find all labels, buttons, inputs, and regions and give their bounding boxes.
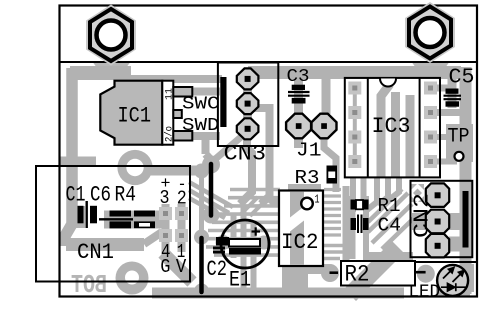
wire pad band to bar A bbox=[136, 166, 202, 176]
wire C5 vertical bbox=[448, 78, 457, 108]
R2 left dash bbox=[330, 271, 339, 274]
TP test point bbox=[455, 152, 464, 161]
wire R3 to IC2 bbox=[288, 184, 321, 191]
svg-text:CN2: CN2 bbox=[412, 193, 435, 238]
CN2 diamond pad bbox=[408, 184, 427, 203]
via bar A bottom pad bbox=[203, 207, 220, 224]
jumper bar B bbox=[199, 238, 204, 292]
IC1 pin middle stub bbox=[173, 110, 182, 118]
svg-text:IC2: IC2 bbox=[281, 229, 319, 255]
wire bus line 4 bbox=[216, 212, 280, 216]
CN1 pin pad 1 bbox=[175, 229, 188, 242]
wire bus line 3 bbox=[224, 204, 280, 208]
IC1 body bbox=[100, 81, 173, 145]
LED circle bbox=[437, 265, 468, 296]
wire E1 vertical 2 bbox=[241, 206, 247, 288]
wire R1 C4 vertical 1 bbox=[350, 196, 356, 259]
CN1 pin pad 4 bbox=[159, 229, 172, 242]
wire under IC2 blob bbox=[282, 266, 308, 290]
svg-text:CN1: CN1 bbox=[77, 239, 114, 265]
IC3 pad row1 left bbox=[348, 82, 361, 95]
svg-text:IC3: IC3 bbox=[372, 113, 411, 139]
wire vertical right of IC2 bbox=[343, 186, 350, 260]
IC3 pad row4 left bbox=[348, 155, 361, 168]
IC1 tab pad bbox=[117, 150, 152, 185]
IC2 inner trace top bbox=[290, 192, 304, 218]
CN1 pin pad 3 bbox=[159, 207, 172, 220]
wire diag stripe 3 bbox=[189, 198, 225, 218]
resistor R1 bbox=[351, 200, 369, 210]
svg-text:SWD: SWD bbox=[182, 115, 220, 136]
wire vertical to bar B bbox=[199, 171, 204, 240]
nut right bbox=[405, 2, 455, 63]
via bar B bottom pad bbox=[194, 284, 209, 299]
wire R1 C4 vertical 2 bbox=[363, 196, 369, 259]
CN3 pad 1 bbox=[237, 68, 259, 89]
wire fan diagonal 2 bbox=[250, 200, 266, 216]
LED box top line bbox=[415, 261, 476, 263]
wire left vertical trace bbox=[65, 68, 72, 246]
capacitor C4 bbox=[351, 215, 369, 234]
IC3 pad row1 right bbox=[424, 82, 437, 95]
IC3 pad row2 left bbox=[348, 106, 361, 119]
svg-text:3: 3 bbox=[160, 187, 170, 209]
wire C3 vertical bbox=[294, 78, 303, 148]
CN3 black bar bbox=[220, 77, 226, 127]
wire bus line 7 bbox=[206, 237, 280, 241]
IC2 pin1 circle bbox=[301, 198, 313, 210]
svg-text:SWC: SWC bbox=[182, 94, 220, 115]
IC3 pad row3 right bbox=[424, 131, 437, 144]
nut left bbox=[86, 5, 136, 66]
wire under LED bbox=[436, 287, 470, 296]
svg-text:CN3: CN3 bbox=[224, 141, 267, 167]
wire below IC3 5 bbox=[389, 177, 399, 200]
wire bus line 6 bbox=[208, 229, 280, 233]
wire IC3 pad1 to C5 bbox=[429, 85, 452, 92]
wire IC2 inner bottom bbox=[290, 232, 304, 290]
wire IC3 left col bbox=[353, 88, 357, 162]
IC3 pad row4 right bbox=[424, 155, 437, 168]
wire CN2 diagonal 2 bbox=[368, 193, 408, 232]
wire CN1 SE diagonal bbox=[163, 253, 192, 282]
R2 box bbox=[341, 261, 415, 286]
svg-text:C3: C3 bbox=[287, 66, 310, 87]
wire CN2 entry blob bbox=[410, 184, 424, 202]
wire big diagonal under R2 bbox=[350, 247, 398, 295]
wire below IC3 3 bbox=[367, 177, 377, 210]
mounting hole pad shadow right bbox=[412, 63, 449, 77]
capacitor C5 bbox=[444, 89, 462, 107]
wire right vertical band bbox=[460, 67, 472, 294]
IC1 pin SWC bbox=[173, 87, 192, 97]
CN1 corner pad bbox=[116, 262, 149, 295]
E1 plus bbox=[252, 227, 261, 235]
wire CN1 diag bbox=[144, 232, 162, 244]
svg-text:TP: TP bbox=[448, 126, 470, 149]
capacitor C1 bbox=[78, 201, 98, 228]
svg-text:C5: C5 bbox=[449, 67, 475, 90]
wire TP blob bbox=[446, 124, 473, 162]
resistor R3 bbox=[327, 166, 338, 184]
wire comb right of IC2 bbox=[324, 190, 341, 236]
CN1 box bbox=[36, 166, 190, 282]
wire J1 to R3 bbox=[324, 128, 336, 192]
CN3 pad 2 bbox=[237, 93, 259, 114]
CN2 pad 3 bbox=[426, 234, 449, 258]
svg-text:C1: C1 bbox=[66, 182, 86, 208]
wire CN2 diagonal 4 bbox=[382, 218, 414, 249]
svg-text:R2: R2 bbox=[345, 262, 370, 289]
resistor R4 bbox=[134, 211, 155, 229]
wire bus line 1 bbox=[230, 188, 280, 192]
svg-text:E1: E1 bbox=[229, 268, 251, 293]
J1 pad right bbox=[312, 114, 337, 139]
board outline bbox=[60, 6, 478, 297]
wire above R2 right bbox=[363, 252, 413, 261]
wire top band left thin bbox=[125, 75, 222, 83]
wire below IC3 1 bbox=[350, 177, 356, 212]
mounting hole pad shadow left bbox=[93, 63, 130, 77]
wire IC3 pad3 stub bbox=[429, 134, 452, 140]
R2 right dash bbox=[416, 271, 426, 274]
board top strip line bbox=[60, 61, 478, 63]
wire diag stripe 1 bbox=[189, 182, 233, 207]
wire IC3 inner 1 bbox=[381, 84, 390, 177]
svg-text:2: 2 bbox=[177, 188, 187, 210]
wire CN3 pad3 down bbox=[240, 130, 252, 204]
wire J1 right pad up bbox=[322, 79, 331, 114]
svg-text:LED: LED bbox=[409, 282, 441, 303]
wire CN2 row3 stub bbox=[449, 237, 462, 252]
IC1 pin SWD bbox=[173, 131, 192, 141]
wire CN3 pad2 stub bbox=[247, 108, 270, 204]
wire CN2 diagonal 3 bbox=[372, 204, 412, 243]
wire CN1 pad col 2 bbox=[178, 204, 186, 252]
svg-text:C4: C4 bbox=[378, 215, 402, 237]
wire CN2 row2 band bbox=[412, 213, 462, 230]
wire bus line 8 bbox=[206, 245, 280, 249]
LED diode symbol bbox=[441, 283, 466, 291]
CN2 black bar bbox=[463, 191, 469, 248]
via bar B top pad bbox=[194, 230, 209, 245]
wire CN1 band 2 bbox=[66, 238, 144, 251]
CN2 pad 1 bbox=[426, 183, 449, 207]
electrolytic E1 circle bbox=[221, 220, 269, 268]
svg-text:G: G bbox=[160, 256, 170, 278]
svg-text:R4: R4 bbox=[115, 182, 137, 208]
capacitor C6 bbox=[99, 211, 133, 229]
wire SWC pin trace bbox=[192, 88, 220, 96]
wire CN1 C1 pad bbox=[71, 206, 85, 228]
wire IC3 inner 2 bbox=[391, 92, 400, 177]
E1 body slot bbox=[229, 239, 260, 247]
IC3 box bbox=[345, 78, 440, 177]
CN3 box bbox=[218, 63, 278, 147]
svg-text:C2: C2 bbox=[207, 257, 228, 282]
wire below IC3 4 bbox=[378, 177, 388, 205]
wire CN2 diagonal 1 bbox=[368, 189, 402, 222]
svg-text:IC1: IC1 bbox=[118, 103, 152, 129]
wire bar to CN3 diag bbox=[213, 137, 241, 161]
wire IC1 pad to jumper bbox=[60, 157, 96, 166]
wire top band left bbox=[70, 66, 131, 80]
capacitor C3 bbox=[288, 85, 310, 104]
wire LED right column bbox=[466, 264, 474, 292]
capacitor C2 bbox=[213, 237, 229, 254]
via left of R2 bbox=[321, 264, 339, 282]
wire bus line 5 bbox=[212, 221, 280, 225]
svg-text:J1: J1 bbox=[296, 140, 322, 162]
wire below IC3 2 bbox=[361, 177, 367, 207]
wire IC3 inner 3 bbox=[406, 95, 415, 177]
wire CN1 band 1 bbox=[104, 211, 162, 229]
wire band into IC2 bbox=[269, 198, 280, 201]
wire E1 vertical 3 bbox=[251, 222, 257, 288]
svg-text:1: 1 bbox=[315, 193, 320, 207]
wire CN3 pads connector bbox=[243, 78, 252, 130]
CN2 box bbox=[411, 181, 473, 257]
wire diag stripe 2 bbox=[189, 190, 229, 213]
CN1 pin pad 2 bbox=[175, 207, 188, 220]
IC3 pad row2 right bbox=[424, 106, 437, 119]
wire E1 vertical 1 bbox=[231, 214, 237, 258]
IC2 inner trace bottom bbox=[290, 221, 304, 265]
wire top band right bbox=[248, 66, 461, 79]
via right of R2 bbox=[417, 265, 435, 283]
svg-text:V: V bbox=[176, 256, 187, 278]
wire IC3 pad2 to right band bbox=[429, 109, 462, 116]
via E1 right pad bbox=[257, 236, 271, 250]
svg-text:R3: R3 bbox=[295, 167, 320, 189]
IC2 box bbox=[279, 191, 323, 267]
LED arrows bbox=[443, 268, 464, 282]
wire bottom band bbox=[152, 288, 404, 299]
J1 pad left bbox=[286, 114, 311, 139]
wire IC2 inner top bbox=[290, 191, 304, 210]
E1 bottom bar bbox=[229, 248, 261, 255]
jumper bar A bbox=[209, 164, 214, 216]
wire R2 left stub bbox=[304, 264, 330, 274]
wire bottom horizontals left of R2 bbox=[322, 246, 352, 259]
wire SWD pin trace bbox=[192, 136, 220, 160]
CN3 pad 3 bbox=[237, 118, 259, 139]
via pad at trace end (201.5,171) bbox=[194, 164, 209, 179]
svg-text:C6: C6 bbox=[90, 182, 111, 208]
wire bus line 9 bbox=[214, 253, 280, 257]
CN2 pad 2 bbox=[426, 210, 449, 234]
IC3 pad row3 left bbox=[348, 131, 361, 144]
via E1 left pad bbox=[216, 235, 231, 250]
wire bus line 2 bbox=[228, 196, 280, 200]
via bar A top pad bbox=[202, 156, 220, 174]
wire CN1 pad col 1 bbox=[162, 204, 170, 262]
wire fan diagonal 1 bbox=[240, 197, 258, 215]
wire IC3 pad4 to TP bbox=[429, 159, 457, 165]
